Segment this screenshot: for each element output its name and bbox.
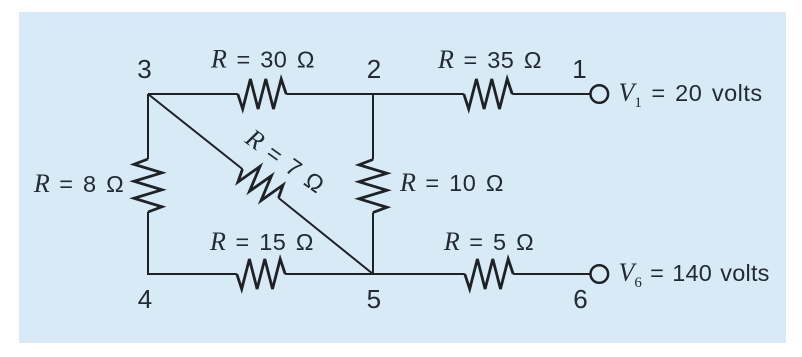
terminal node 1 circle xyxy=(591,85,609,103)
resistor R7 diagonal xyxy=(238,166,283,200)
wire R5 to terminal 6 xyxy=(513,273,590,275)
wire R8 down to node4 xyxy=(147,212,149,275)
resistor R10 xyxy=(359,160,387,213)
wire node2 to R35 xyxy=(373,93,464,95)
wire R30 to node2 xyxy=(286,93,373,95)
R = 7 ohm value label (rotated) xyxy=(239,122,330,199)
wire R15 to node5 xyxy=(285,273,373,275)
wire R7 to node5 diagonal xyxy=(279,198,374,274)
wire R10 down to node5 xyxy=(372,213,374,276)
wire node3 to R7 diagonal xyxy=(148,94,243,169)
wire node4 to R15 xyxy=(148,273,237,275)
svg-text:R = 15 Ω: R = 15 Ω xyxy=(209,227,314,256)
svg-text:1: 1 xyxy=(572,54,586,84)
resistor R8 xyxy=(134,159,162,212)
resistor R5 xyxy=(465,259,513,289)
svg-text:6: 6 xyxy=(573,284,587,314)
svg-text:R = 35 Ω: R = 35 Ω xyxy=(437,45,542,74)
svg-text:2: 2 xyxy=(367,54,381,84)
wire R35 to terminal 1 xyxy=(512,93,590,95)
wire node5 to R5 xyxy=(373,273,465,275)
svg-text:R = 5 Ω: R = 5 Ω xyxy=(443,227,534,256)
svg-text:4: 4 xyxy=(138,284,152,314)
svg-text:R = 8 Ω: R = 8 Ω xyxy=(33,169,124,198)
svg-text:3: 3 xyxy=(137,54,151,84)
wire node3 down to R8 xyxy=(147,94,149,159)
svg-text:5: 5 xyxy=(367,284,381,314)
resistor R30 xyxy=(238,79,286,109)
wire node2 down to R10 xyxy=(372,94,374,160)
svg-text:R = 10 Ω: R = 10 Ω xyxy=(399,168,504,197)
wire node3 to R30 xyxy=(148,93,238,95)
terminal node 6 circle xyxy=(591,265,609,283)
svg-text:R = 30 Ω: R = 30 Ω xyxy=(210,45,315,74)
resistor R15 xyxy=(237,259,285,289)
resistor R35 xyxy=(464,79,512,109)
